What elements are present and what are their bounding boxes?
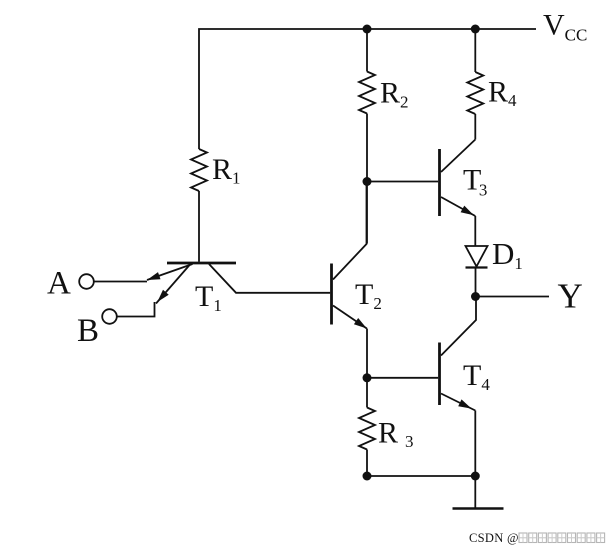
wire R4 branch (474, 29, 476, 72)
svg-text:T4: T4 (463, 359, 490, 394)
svg-text:R2: R2 (380, 77, 409, 112)
wire to ground (474, 476, 476, 509)
T4 emitter (441, 394, 475, 411)
svg-text:D1: D1 (492, 236, 523, 273)
wire T3 emitter to D1 (474, 216, 476, 246)
wire T4 emitter down (474, 411, 476, 477)
terminal B circle (102, 309, 117, 324)
resistor R3 (359, 408, 375, 450)
resistor R4 (467, 72, 483, 114)
transistor T1 base bar (167, 262, 236, 265)
node Vcc/R4 junction (471, 25, 480, 34)
wire T3 base (367, 181, 438, 183)
T4 collector (441, 297, 476, 356)
ground (453, 507, 504, 509)
transistor T3 bar (438, 149, 441, 216)
wire bottom (367, 475, 475, 477)
T2 collector (333, 181, 367, 280)
T2 emitter (333, 306, 367, 329)
terminal A circle (79, 274, 94, 289)
T1 emitter to input B (156, 265, 190, 304)
wire D1 to Y (475, 268, 477, 297)
wire R2 branch (366, 29, 368, 72)
svg-text:R1: R1 (212, 153, 241, 188)
wire R1 to T1 base (198, 191, 200, 262)
node Vcc/R2 junction (363, 25, 372, 34)
wire R3 bottom (366, 450, 368, 477)
wire to Y terminal (476, 296, 550, 298)
svg-text:A: A (47, 266, 71, 302)
transistor T2 bar (330, 264, 333, 325)
resistor R1 (191, 149, 207, 191)
svg-text:VCC: VCC (543, 9, 587, 45)
node R2/T2/T3 junction (363, 177, 372, 186)
node T2e/R3/T4 junction (363, 373, 372, 382)
wire Vcc rail top (199, 29, 536, 149)
T3 collector (441, 140, 475, 173)
wire R4 bottom to T3 collector (474, 114, 476, 140)
wire node to R3 (366, 378, 368, 408)
T1 collector (209, 264, 330, 293)
wire input A (94, 281, 147, 283)
node Y junction (471, 292, 480, 301)
diode D1 (466, 246, 488, 267)
resistor R2 (359, 72, 375, 114)
node T4 emitter bottom junction (471, 472, 480, 481)
svg-text:T3: T3 (463, 164, 487, 200)
svg-text:B: B (77, 313, 99, 349)
svg-text:T2: T2 (355, 278, 382, 313)
transistor T4 bar (438, 343, 441, 406)
svg-text:R3: R3 (378, 417, 414, 452)
svg-text:T1: T1 (195, 280, 222, 315)
wire R2 bottom to T2 collector (366, 114, 368, 244)
svg-text:R4: R4 (488, 76, 517, 111)
svg-text:Y: Y (558, 277, 583, 316)
wire input B (117, 302, 155, 317)
wire T4 base (367, 377, 438, 379)
T1 emitter to input A (147, 264, 193, 280)
node R3 bottom junction (363, 472, 372, 481)
T3 emitter (441, 197, 475, 216)
wire T2 emitter down (366, 329, 368, 379)
svg-text:CSDN @: CSDN @ (469, 531, 519, 545)
